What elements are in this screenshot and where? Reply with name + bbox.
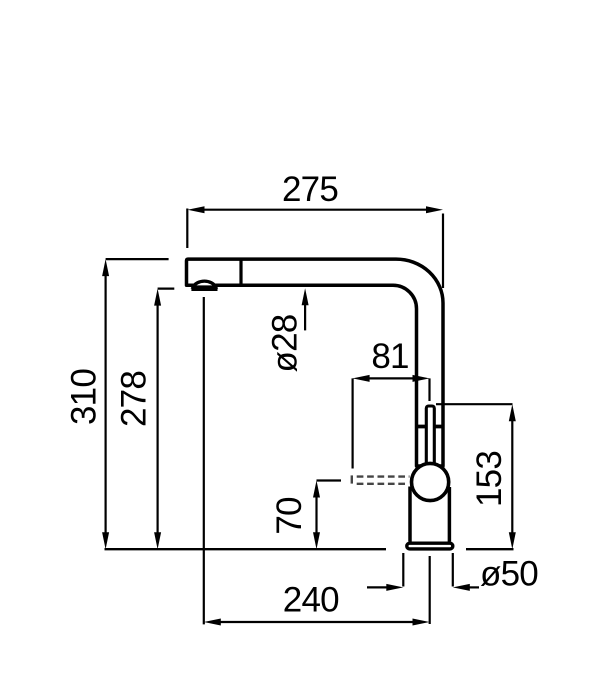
svg-text:278: 278 (115, 371, 154, 427)
dimension 70 (270, 481, 341, 550)
hidden hose dashed lines (352, 475, 410, 483)
ball joint (412, 463, 449, 500)
faucet tube outline (spout + bend + riser) (187, 259, 444, 466)
dimension 240 (204, 297, 430, 626)
aerator bottom bar (191, 287, 217, 291)
body cylinder (408, 487, 412, 542)
dimension 275 (187, 170, 443, 288)
leader and label ø28 (266, 288, 309, 372)
svg-text:153: 153 (470, 451, 509, 507)
svg-text:275: 275 (282, 170, 338, 209)
spout section line (239, 259, 242, 285)
svg-text:ø28: ø28 (266, 315, 305, 373)
dimension ø50 (367, 553, 538, 594)
riser seam line (417, 425, 444, 429)
dimension 153 (436, 404, 516, 549)
lever handle (426, 406, 434, 468)
svg-text:ø50: ø50 (480, 555, 538, 594)
svg-text:81: 81 (371, 337, 408, 376)
svg-text:310: 310 (65, 369, 104, 425)
base flange (407, 543, 453, 549)
aerator dome (193, 281, 215, 287)
svg-text:70: 70 (270, 497, 309, 535)
dimension 310 (65, 259, 169, 549)
svg-text:240: 240 (283, 581, 339, 620)
dimension 278 (115, 289, 175, 550)
countertop line left segment (105, 548, 387, 550)
countertop line right segment (466, 548, 514, 550)
dimension 81 (353, 337, 430, 469)
